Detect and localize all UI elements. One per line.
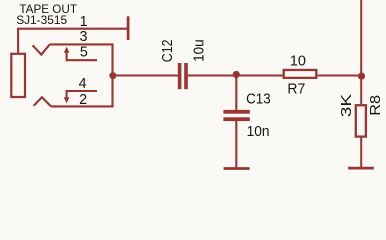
svg-text:5: 5 [80, 45, 88, 61]
wire pin 3 net to junction [50, 44, 113, 75]
svg-text:C12: C12 [160, 39, 176, 62]
svg-text:3: 3 [80, 29, 88, 45]
resistor R7 box [284, 70, 317, 78]
wire C12 to R7 [188, 74, 283, 76]
junction node C (R8 tap) [358, 73, 365, 80]
svg-text:R7: R7 [287, 81, 305, 97]
svg-text:10: 10 [290, 53, 306, 69]
svg-text:10n: 10n [247, 124, 270, 140]
connector SJ1 body rectangle [11, 54, 25, 97]
svg-text:2: 2 [79, 92, 87, 108]
wire C13 bottom lead [235, 121, 237, 168]
wire R7 to right node [318, 74, 362, 76]
svg-text:1: 1 [80, 14, 88, 30]
capacitor C13 plates [223, 110, 249, 114]
ground (below C13) [224, 167, 250, 170]
svg-text:3K: 3K [339, 93, 355, 117]
capacitor C12 plates [178, 63, 182, 89]
svg-text:C13: C13 [246, 92, 271, 108]
wire right vertical rail [360, 0, 362, 104]
resistor R8 box [356, 105, 366, 136]
svg-text:R8: R8 [368, 95, 384, 116]
ground (pin 1, vertical bar) [127, 16, 130, 40]
connector ring contact (inverted check) [34, 97, 51, 106]
svg-text:SJ1-3515: SJ1-3515 [16, 13, 67, 27]
junction node A (pins 2+3) [109, 72, 116, 79]
pin 5 switch contact line [67, 49, 97, 61]
pin 5 arrowhead [64, 47, 70, 53]
wire junction to C12 [113, 74, 178, 76]
wire R8 bottom lead [360, 138, 362, 168]
wire pin1 sleeve net [18, 29, 127, 54]
wire pin 2 net to junction [51, 76, 113, 107]
junction node B (C13 tap) [233, 71, 240, 78]
connector tip contact (check mark) [33, 44, 50, 54]
svg-text:10u: 10u [192, 39, 208, 62]
pin 4 switch contact line [67, 91, 97, 101]
svg-text:4: 4 [79, 76, 87, 92]
ground (below R8) [348, 167, 374, 170]
wire C13 top lead [235, 76, 237, 111]
pin 4 arrowhead [64, 97, 70, 103]
